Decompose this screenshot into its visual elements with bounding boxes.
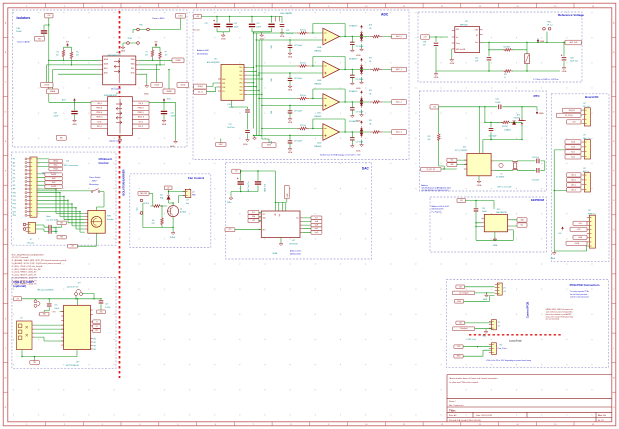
- svg-text:+REF_5040: +REF_5040: [569, 42, 577, 44]
- jumper JP1: [75, 293, 78, 296]
- svg-text:R4: R4: [57, 51, 59, 53]
- svg-text:for the Power provision: for the Power provision: [570, 293, 587, 296]
- wire: [143, 190, 185, 231]
- svg-text:EncB: EncB: [52, 182, 55, 184]
- capacitor C44: [489, 128, 494, 130]
- junction: [75, 207, 76, 208]
- junction: [229, 16, 230, 17]
- section box: Fan Control: [130, 174, 211, 248]
- junction: [156, 64, 157, 65]
- wire: [313, 89, 345, 102]
- capacitor C35: [350, 42, 355, 44]
- junction: [537, 42, 538, 43]
- connector J20 power in: [497, 283, 502, 295]
- ground GNDB: [73, 119, 77, 123]
- svg-text:C45 15pF: C45 15pF: [532, 179, 539, 181]
- junction: [79, 211, 80, 212]
- junction: [253, 135, 254, 136]
- svg-text:P = Page bit: P = Page bit: [432, 210, 442, 213]
- svg-text:CAT24M01W: CAT24M01W: [496, 211, 507, 214]
- net label +5V0A: [573, 235, 587, 239]
- net label CNV_B: [132, 101, 149, 106]
- power symbol B5V: [67, 44, 69, 48]
- net label GND0: [454, 354, 463, 358]
- svg-text:RST: RST: [53, 311, 56, 313]
- svg-text:100nF: 100nF: [16, 31, 22, 33]
- svg-text:(P0, R3, PT reserved): (P0, R3, PT reserved): [12, 256, 29, 259]
- svg-text:C23: C23: [234, 23, 237, 25]
- svg-text:BLRD: BLRD: [131, 73, 135, 75]
- net label +REF_5040: [565, 40, 582, 45]
- section box: USB-B to UART: [12, 278, 116, 369]
- USB pins: [32, 325, 34, 337]
- ground GND: [174, 140, 178, 144]
- junction: [352, 69, 353, 70]
- capacitor C45: [537, 168, 539, 173]
- ground GNDB: [121, 46, 125, 50]
- svg-text:100nF: 100nF: [495, 102, 501, 104]
- svg-text:100nF: 100nF: [229, 107, 234, 109]
- svg-text:I2 - [C14] - PWM2 O -: I2 - [C14] - PWM2 O - [D06] - B5: [12, 272, 36, 274]
- svg-text:TP13: TP13: [13, 204, 17, 206]
- svg-text:10k: 10k: [152, 220, 155, 222]
- svg-text:File: Control.sch: File: Control.sch: [449, 404, 463, 407]
- svg-text:B5V: B5V: [66, 42, 69, 44]
- ground GND: [360, 81, 364, 85]
- junction: [21, 356, 22, 357]
- net label VoutD: [565, 155, 581, 159]
- resistor R11: [297, 65, 310, 68]
- net label PwrBTN: [45, 173, 62, 177]
- wire: [463, 347, 491, 357]
- capacitor C42: [499, 105, 501, 110]
- svg-text:R14 10k: R14 10k: [300, 30, 306, 32]
- MCP2221 left pins: [61, 312, 63, 346]
- resistor R10: [297, 32, 310, 35]
- junction: [312, 128, 313, 129]
- DAC left pins: [259, 214, 262, 230]
- svg-text:R5: R5: [76, 51, 78, 53]
- junction: [172, 227, 173, 228]
- svg-text:CH4-: CH4-: [239, 94, 243, 96]
- svg-text:GNDB: GNDB: [72, 124, 76, 126]
- svg-text:Diodes have 0.97nA leakage cur: Diodes have 0.97nA leakage current with …: [320, 154, 361, 157]
- connector J15 USB-B: [17, 321, 33, 350]
- SW3 pins: [85, 214, 88, 230]
- wire: [254, 33, 270, 143]
- capacitor C17: [255, 182, 261, 184]
- wire: [139, 47, 172, 89]
- IC U14 RTC PCF8563: [467, 153, 491, 175]
- test point TP21: [140, 212, 143, 215]
- svg-text:GND0: GND0: [267, 145, 271, 147]
- net label Vref: [311, 216, 322, 220]
- svg-text:Isolated Side: Isolated Side: [509, 340, 523, 343]
- net label RX: [93, 324, 101, 328]
- U8 right pins: [136, 60, 139, 74]
- crystal Y1: [513, 163, 516, 169]
- net label VoutA: [565, 140, 581, 144]
- svg-text:BSCL: BSCL: [131, 68, 135, 70]
- net label I2C?: [225, 228, 235, 232]
- connector J30 I2C out: [584, 108, 590, 126]
- junction: [484, 122, 485, 123]
- net label SDA3B: [163, 89, 175, 94]
- junction: [488, 49, 489, 50]
- RTC right pins: [491, 161, 494, 170]
- svg-text:SW3: SW3: [107, 216, 111, 218]
- svg-text:MCU Connections: MCU Connections: [64, 164, 79, 167]
- svg-text:CH3-: CH3-: [239, 86, 243, 88]
- svg-text:SI8661BB-B-IS1: SI8661BB-B-IS1: [104, 95, 117, 97]
- svg-text:+3V3: +3V3: [572, 121, 576, 123]
- junction: [240, 170, 241, 171]
- svg-text:J3?: J3?: [583, 168, 586, 170]
- connector J13 header 16 pins: [30, 157, 37, 217]
- svg-text:TP15: TP15: [13, 211, 17, 213]
- svg-text:Encoder: Encoder: [107, 219, 114, 221]
- svg-text:5R0: 5R0: [271, 141, 273, 144]
- svg-text:100nF: 100nF: [234, 26, 239, 28]
- svg-text:KiCad E.D.A. kicad (5.99.0-1-: KiCad E.D.A. kicad (5.99.0-1-10.14): [449, 419, 481, 422]
- svg-text:SCL: SCL: [521, 225, 524, 227]
- svg-text:J3?: J3?: [588, 210, 591, 212]
- svg-text:R15: R15: [152, 223, 155, 225]
- test point TP18: [23, 228, 26, 231]
- net label SDA3A: [47, 89, 59, 94]
- wire: [430, 37, 561, 72]
- svg-text:SCL3B: SCL3B: [154, 84, 159, 86]
- net label SDA_A: [194, 84, 207, 89]
- junction: [361, 36, 362, 37]
- svg-text:GND0: GND0: [457, 301, 461, 303]
- junction: [475, 226, 476, 227]
- net label +5V: [232, 169, 241, 173]
- connector J32 ADC in: [584, 173, 590, 192]
- net label SCL: [517, 223, 527, 227]
- net label LDAC vertical: [284, 185, 289, 198]
- isolated side dashed line: [469, 334, 562, 336]
- svg-text:R24 5R6: R24 5R6: [504, 46, 510, 48]
- net label +5V0: [456, 285, 465, 289]
- junction: [289, 72, 290, 73]
- capacitor C15: [47, 304, 52, 306]
- svg-text:TP5: TP5: [13, 174, 16, 176]
- net label VoutB: [311, 223, 322, 227]
- net label VoutD: [311, 231, 322, 235]
- junction: [526, 42, 527, 43]
- svg-text:Address 0x68: Address 0x68: [197, 49, 209, 52]
- svg-text:PWR_1.olg: PWR_1.olg: [468, 339, 476, 341]
- svg-text:Control: Control: [99, 161, 109, 165]
- net label SDA_3V3: [562, 108, 581, 112]
- capacitor C13: [99, 301, 104, 303]
- wire: [289, 106, 291, 118]
- svg-text:+5V: +5V: [167, 187, 170, 189]
- svg-text:10uF (int): 10uF (int): [286, 32, 294, 35]
- capacitor C39: [474, 209, 479, 211]
- svg-text:TP1: TP1: [13, 159, 16, 161]
- junction: [484, 106, 485, 107]
- wire: [339, 37, 391, 49]
- test point TP43: [548, 27, 551, 30]
- net label I2C_RTC_INT: [421, 167, 442, 171]
- wire: [466, 201, 514, 241]
- junction: [258, 72, 259, 73]
- ground GND: [360, 48, 364, 52]
- svg-text:I4 - [A09/A46] - SDA H -: I4 - [A09/A46] - SDA H - [A15] - MTX1_NT…: [12, 259, 67, 262]
- net label +3V3: [567, 120, 581, 124]
- svg-text:U1?: U1?: [465, 21, 468, 23]
- junction: [253, 32, 254, 33]
- IC U10 voltage reference REF5040: [455, 27, 480, 53]
- capacitor C23: [226, 24, 232, 26]
- svg-text:OPA4340: OPA4340: [314, 115, 321, 118]
- ground GND: [493, 237, 497, 241]
- junction: [256, 39, 257, 40]
- svg-text:(0b1101000): (0b1101000): [197, 53, 208, 55]
- junction: [256, 71, 257, 72]
- connector J33 PWR out: [589, 215, 595, 248]
- net label PWM2_A: [91, 110, 108, 115]
- resistor R15: [161, 217, 164, 226]
- junction: [494, 240, 495, 241]
- net label CNV_A: [91, 101, 108, 106]
- svg-text:10k: 10k: [369, 123, 372, 125]
- svg-text:CH2+: CH2+: [239, 75, 243, 77]
- capacitor C38: [434, 43, 439, 45]
- svg-text:+5V0: +5V0: [457, 346, 461, 348]
- connector J2A isolated: [492, 343, 497, 355]
- svg-text:OPA4340: OPA4340: [314, 50, 321, 53]
- svg-text:C42: C42: [495, 99, 498, 101]
- svg-text:CH1+: CH1+: [239, 67, 243, 69]
- svg-text:Isolators: Isolators: [17, 16, 31, 20]
- svg-text:J1?: J1?: [186, 200, 189, 202]
- wire: [22, 294, 101, 313]
- wire: [49, 102, 176, 139]
- IC U13 ADC MCP3428: [221, 65, 244, 101]
- net label TX: [93, 320, 101, 324]
- net label ADC_0: [392, 34, 407, 39]
- diode pair D8: [360, 64, 363, 76]
- svg-text:J2?: J2?: [498, 322, 501, 324]
- svg-text:J1?: J1?: [30, 239, 33, 241]
- svg-text:J3?: J3?: [583, 103, 586, 105]
- svg-text:J3?: J3?: [583, 135, 586, 137]
- wire: [289, 73, 291, 85]
- diode pair D9: [360, 96, 363, 108]
- ground GNDA: [288, 52, 292, 56]
- wire: [313, 119, 345, 132]
- svg-text:PWM2_B: PWM2_B: [138, 112, 144, 114]
- net label +5V0: [573, 221, 587, 225]
- svg-text:Control PCB: Control PCB: [526, 302, 530, 319]
- net label GND?: [216, 143, 226, 147]
- net label SDA: [447, 163, 457, 167]
- svg-text:GP0: GP0: [93, 339, 96, 341]
- net label +5V: [45, 13, 53, 18]
- diode pair D7: [360, 31, 363, 43]
- diode D11: [512, 121, 515, 125]
- svg-text:ADC_0: ADC_0: [396, 35, 402, 38]
- svg-text:ADC: ADC: [381, 13, 389, 17]
- IC U17 DAC MCP4728: [261, 211, 300, 238]
- section box: EEPROM: [430, 197, 547, 252]
- svg-text:TX: TX: [96, 321, 98, 323]
- svg-text:Close to 8654: Close to 8654: [152, 17, 165, 20]
- svg-text:10k: 10k: [369, 93, 372, 95]
- svg-text:Digital isolator: Digital isolator: [109, 140, 122, 143]
- net label VoutA: [311, 220, 322, 224]
- svg-text:J: J: [613, 289, 614, 291]
- svg-text:R13 D11: R13 D11: [502, 126, 508, 128]
- power symbol B5V: [155, 44, 157, 48]
- connector J13 fan: [185, 189, 191, 197]
- ground GNDA: [477, 180, 481, 184]
- ground GNDA: [450, 58, 454, 62]
- net label SCL3B: [151, 83, 163, 88]
- svg-text:C3? 100pF: C3? 100pF: [294, 45, 302, 47]
- net label TACH1_A: [91, 115, 108, 120]
- svg-text:+5V: +5V: [503, 291, 506, 293]
- net label SCA3B: [172, 58, 184, 63]
- svg-text:+5V0: +5V0: [578, 223, 582, 225]
- net label ADC_1: [392, 67, 407, 72]
- svg-text:Vlog: Vlog: [279, 214, 281, 217]
- wire: [339, 70, 391, 82]
- junction: [48, 24, 49, 25]
- svg-text:MCP2221A-I/SL: MCP2221A-I/SL: [66, 364, 79, 367]
- junction: [71, 64, 72, 65]
- power symbol GNDA: [536, 110, 538, 114]
- wire: [483, 32, 568, 72]
- wire: [289, 136, 291, 148]
- junction: [71, 203, 72, 204]
- ground GNDA: [288, 85, 292, 89]
- svg-text:+5V0: +5V0: [558, 233, 562, 235]
- rotary encoder SW3: [88, 210, 105, 233]
- opamp power pins U10E: [276, 16, 280, 21]
- svg-text:100nF: 100nF: [171, 116, 176, 118]
- wire: [451, 49, 453, 58]
- junction: [253, 82, 254, 83]
- junction: [488, 70, 489, 71]
- svg-text:R17 10k: R17 10k: [300, 125, 306, 127]
- ground GND: [118, 138, 122, 142]
- frequency marker: [499, 163, 503, 167]
- IC U9 digital isolator SI8661: [108, 97, 133, 136]
- svg-text:OPA4340: OPA4340: [314, 145, 321, 148]
- junction: [261, 105, 262, 106]
- svg-text:C40: C40: [475, 57, 478, 59]
- net label GND0: [262, 143, 276, 148]
- svg-text:J13: J13: [66, 160, 69, 162]
- net label TBC: [30, 361, 40, 365]
- wire: [289, 40, 291, 52]
- power symbol +5V: [74, 99, 76, 103]
- wire: [37, 191, 104, 211]
- wire: [247, 67, 262, 94]
- net label TBC: [57, 221, 66, 225]
- svg-text:U1?: U1?: [214, 58, 217, 60]
- wire: [439, 107, 537, 169]
- resistor R13: [501, 121, 511, 124]
- junction: [152, 60, 153, 61]
- wire: [554, 150, 587, 251]
- svg-text:2k2 R14: 2k2 R14: [143, 203, 149, 205]
- net label +3.3VA: [566, 241, 587, 245]
- svg-text:I7 - [D14] - TACH2 Q -: I7 - [D14] - TACH2 Q - [D08] - F6: [12, 277, 37, 280]
- net label EncSW: [45, 185, 62, 189]
- isolation barrier dashed line: [119, 11, 121, 378]
- junction: [172, 202, 173, 203]
- wire: [119, 135, 121, 138]
- section box: RTC: [420, 91, 547, 191]
- resistor R5: [70, 51, 73, 60]
- net label SCL3A: [41, 83, 54, 88]
- net label TACH1_B: [132, 115, 149, 120]
- section box: Reference Voltage: [418, 12, 582, 82]
- junction: [168, 191, 169, 192]
- junction: [59, 192, 60, 193]
- svg-text:To create separate PCBs: To create separate PCBs: [570, 290, 589, 293]
- net label TBD: [56, 135, 66, 140]
- junction: [563, 42, 564, 43]
- section box: DAC: [226, 162, 372, 259]
- wire: [207, 83, 219, 92]
- junction: [475, 222, 476, 223]
- connector J14 Mot_Out: [28, 222, 35, 233]
- svg-text:+5V0 a/c be 5V or 3.3V dependi: +5V0 a/c be 5V or 3.3V depending on powe…: [486, 359, 531, 362]
- svg-text:I2C_RTC_INT: I2C_RTC_INT: [426, 169, 435, 171]
- svg-text:GP2: GP2: [93, 346, 96, 348]
- net label INT_B: [132, 120, 149, 125]
- resistor R14: [153, 205, 161, 208]
- net label ADC_0: [567, 173, 581, 177]
- svg-text:ISOLATION BARRIER: ISOLATION BARRIER: [122, 169, 126, 196]
- svg-text:Fan: Fan: [186, 203, 189, 205]
- junction: [168, 69, 169, 70]
- IC U15 EEPROM CAT24M01: [484, 214, 507, 231]
- diode D12: [167, 196, 170, 200]
- svg-text:EncSW: EncSW: [51, 186, 56, 188]
- ground GND: [360, 143, 364, 147]
- junction: [257, 170, 258, 171]
- wire: [256, 66, 323, 73]
- net label 3V3: [97, 310, 106, 314]
- svg-text:TBC: TBC: [33, 362, 36, 364]
- test point column: [25, 158, 27, 160]
- svg-text:CH2-: CH2-: [239, 79, 243, 81]
- svg-text:U14: U14: [463, 146, 466, 148]
- op-amp U10D: [323, 124, 340, 141]
- junction: [240, 191, 241, 192]
- svg-text:MH1: MH1: [222, 83, 225, 85]
- junction: [486, 292, 487, 293]
- junction: [251, 16, 252, 17]
- junction: [312, 65, 313, 66]
- svg-text:4k7: 4k7: [56, 55, 59, 57]
- svg-text:100nF C18: 100nF C18: [265, 184, 267, 192]
- svg-text:RDY: RDY: [263, 229, 266, 231]
- svg-text:3V3: 3V3: [100, 311, 103, 313]
- junction: [271, 16, 272, 17]
- svg-text:Board I/O: Board I/O: [585, 95, 599, 99]
- wire: [464, 287, 495, 302]
- net label TBC: [40, 312, 50, 316]
- ground GND: [360, 113, 364, 117]
